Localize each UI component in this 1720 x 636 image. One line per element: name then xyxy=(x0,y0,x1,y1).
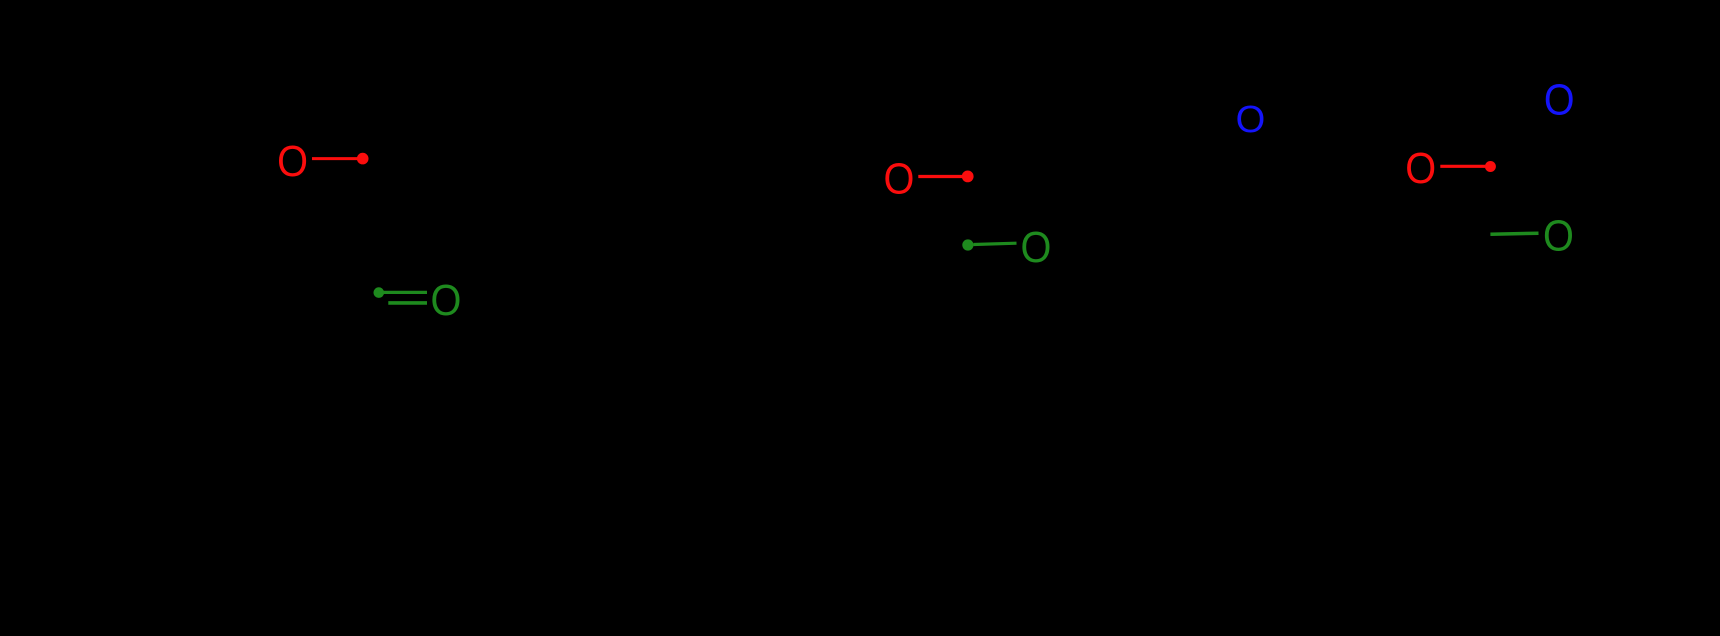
svg-text:O: O xyxy=(1236,98,1266,141)
molecule 2 : bond O1-C (red) xyxy=(918,175,963,178)
molecule 3 : bond C-O4 (green) xyxy=(1490,233,1538,234)
molecule 2 : bond C-O2 (green) xyxy=(974,243,1017,244)
molecule 3 : bond O3-C (red) xyxy=(1440,165,1485,168)
molecule 1 : double bond C=O upper line (green) xyxy=(384,291,428,294)
svg-text:O: O xyxy=(1544,75,1575,124)
molecule 2 : ester oxygen O2 (green label) xyxy=(1021,222,1052,271)
svg-text:O: O xyxy=(883,154,914,203)
molecule 1 : bond O1-C (red) xyxy=(312,157,358,160)
molecule 1 : carbonyl carbon dot (green) xyxy=(374,287,385,298)
molecule 2 : carbon atom dot (red) xyxy=(962,171,974,183)
molecule 3 : ether oxygen O3 (red label) xyxy=(1405,143,1436,192)
molecule 1 : carbon atom dot (red) xyxy=(357,153,369,165)
molecule 1 : carbonyl oxygen O2 (green label) xyxy=(431,276,462,325)
svg-text:O: O xyxy=(1021,222,1052,271)
svg-text:O: O xyxy=(1543,211,1574,260)
svg-text:O: O xyxy=(1405,143,1436,192)
molecule 3 : ring oxygen O2 (blue label) xyxy=(1544,75,1575,124)
molecule 1 : double bond C=O lower line (green) xyxy=(388,301,427,305)
molecule 3 : ester oxygen O4 (green label) xyxy=(1543,211,1574,260)
molecule 3 : carbon atom dot (red) xyxy=(1485,161,1496,172)
svg-text:O: O xyxy=(431,276,462,325)
molecule 1 : ether oxygen O1 (red label) xyxy=(277,137,308,186)
molecule 2 : carbon atom dot (green) xyxy=(962,239,973,250)
svg-text:O: O xyxy=(277,137,308,186)
molecule 2 : ether oxygen O1 (red label) xyxy=(883,154,914,203)
molecule 3 : ring oxygen O1 (blue label) xyxy=(1236,98,1266,141)
